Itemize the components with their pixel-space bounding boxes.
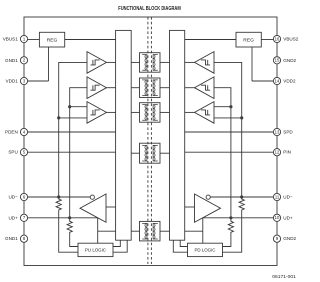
pin 4 circle xyxy=(20,128,27,135)
hysteresis symbol B3 xyxy=(201,110,210,115)
differential receiver A3 left xyxy=(87,102,107,124)
svg-text:GND2: GND2 xyxy=(283,58,296,63)
svg-text:SPD: SPD xyxy=(283,130,293,135)
isolation barrier dashed line right xyxy=(150,17,152,264)
wire REG right to VBUS2 xyxy=(261,39,273,41)
wire VBUS1 to REG xyxy=(28,39,40,41)
hysteresis symbol B2 xyxy=(201,85,210,90)
svg-text:VBUS1: VBUS1 xyxy=(3,37,19,42)
pin 5 circle xyxy=(20,149,27,156)
hysteresis symbol A3 xyxy=(91,110,100,115)
svg-text:UD+: UD+ xyxy=(8,215,18,220)
svg-text:PDEN: PDEN xyxy=(5,130,18,135)
pins xyxy=(20,35,280,242)
svg-text:15: 15 xyxy=(275,58,280,63)
wire receiver B3 output xyxy=(185,111,195,113)
encoder/decoder block right xyxy=(170,30,185,240)
pin 7 circle xyxy=(20,214,27,221)
svg-text:VDD2: VDD2 xyxy=(283,79,296,84)
hysteresis symbol A2 xyxy=(91,85,100,90)
wire REG output down xyxy=(48,47,50,81)
wire SPU to left block xyxy=(28,151,116,153)
wire REG right output down xyxy=(251,47,253,81)
wire tee to left block xyxy=(98,230,116,232)
svg-text:FUNCTIONAL BLOCK DIAGRAM: FUNCTIONAL BLOCK DIAGRAM xyxy=(118,6,181,12)
wire buffer A2 output xyxy=(107,87,116,89)
svg-text:10: 10 xyxy=(275,215,280,220)
node rail-A x B3 lower input right xyxy=(240,116,243,119)
svg-text:UD+: UD+ xyxy=(283,215,293,220)
wire rail UD+ receiver left (with pull-up resistor R2) xyxy=(67,88,87,247)
wire PDEN to left block xyxy=(28,131,116,133)
wire right driver junction down to PD logic xyxy=(202,218,204,243)
svg-text:PD LOGIC: PD LOGIC xyxy=(195,248,216,253)
wire buffer B2 output xyxy=(185,87,195,89)
schmitt buffer A2 left xyxy=(87,77,107,99)
node rail-A x A3 lower input left xyxy=(57,116,60,119)
transformer T4 xyxy=(131,143,169,163)
driver enable bubble right xyxy=(206,195,210,199)
pin 16 circle xyxy=(273,35,280,42)
pin 6 circle xyxy=(20,193,27,200)
wire right block to REG xyxy=(185,39,237,41)
wire buffer A1 output xyxy=(107,61,116,63)
svg-text:GND1: GND1 xyxy=(5,236,18,241)
wire rail UD- receiver left (with pull-up resistor R1) xyxy=(56,62,87,252)
svg-text:PU LOGIC: PU LOGIC xyxy=(85,248,106,253)
pin 3 circle xyxy=(20,77,27,84)
pin 10 circle xyxy=(273,214,280,221)
wire differential receiver input lower left xyxy=(59,117,87,119)
wire PU logic to block stub 1 xyxy=(113,240,120,246)
node rail-B x B3 upper input right xyxy=(229,105,232,108)
svg-text:PIN: PIN xyxy=(283,150,291,155)
svg-text:GND1: GND1 xyxy=(5,58,18,63)
node rail-B x A3 upper input left xyxy=(68,105,71,108)
output driver right xyxy=(195,194,221,222)
svg-text:VBUS2: VBUS2 xyxy=(283,37,299,42)
svg-text:UD−: UD− xyxy=(8,195,18,200)
svg-text:UD−: UD− xyxy=(283,195,293,200)
wire REG to left block xyxy=(65,39,116,41)
node rail-B x UD+ right xyxy=(229,216,232,219)
PU LOGIC block xyxy=(78,243,113,256)
pin 9 circle xyxy=(273,235,280,242)
hysteresis symbol A1 xyxy=(91,60,100,65)
transformer T2 xyxy=(131,78,169,98)
pin 1 circle xyxy=(20,35,27,42)
wire driver enable to left block xyxy=(106,206,116,208)
chip outline xyxy=(24,17,277,266)
svg-text:14: 14 xyxy=(275,78,280,83)
wire right block to SPD xyxy=(185,131,274,133)
schmitt buffer B2 right xyxy=(195,77,215,99)
pin 8 circle xyxy=(20,235,27,242)
isolation barrier dashed line left xyxy=(147,17,149,264)
pin 14 circle xyxy=(273,77,280,84)
svg-text:06171-001: 06171-001 xyxy=(272,274,296,279)
transformer T5 xyxy=(131,221,169,241)
hysteresis symbol B1 xyxy=(201,60,210,65)
PD LOGIC block xyxy=(188,243,223,256)
svg-text:SPU: SPU xyxy=(8,150,17,155)
svg-text:13: 13 xyxy=(275,129,280,134)
wire UD- pin6 to driver bubble xyxy=(28,196,91,198)
pin 2 circle xyxy=(20,57,27,64)
wire differential receiver input upper left xyxy=(70,106,87,108)
svg-text:GND2: GND2 xyxy=(283,236,296,241)
wire PD logic to block stub 1 xyxy=(180,240,187,246)
node rail-A x UD- right xyxy=(240,195,243,198)
svg-text:11: 11 xyxy=(275,194,280,199)
regulator REG right xyxy=(236,32,261,47)
wire right block to PIN xyxy=(185,151,274,153)
pin 12 circle xyxy=(273,149,280,156)
wire differential receiver input upper right xyxy=(214,106,231,108)
schmitt buffer A1 left xyxy=(87,52,107,74)
wire buffer B1 output xyxy=(185,61,195,63)
svg-text:REG: REG xyxy=(243,37,254,43)
pin 15 circle xyxy=(273,57,280,64)
wire PU logic to block stub 2 xyxy=(113,240,127,252)
wire driver bubble to UD- pin11 xyxy=(210,196,273,198)
wire VDD2 xyxy=(252,80,273,82)
pin 11 circle xyxy=(273,193,280,200)
junction dots xyxy=(57,105,243,219)
node rail-B x UD+ left xyxy=(68,216,71,219)
svg-text:16: 16 xyxy=(275,36,280,41)
differential receiver B3 right xyxy=(195,102,215,124)
regulator REG left xyxy=(39,32,64,47)
transformer T1 xyxy=(131,53,169,72)
encoder/decoder block left xyxy=(116,30,132,240)
wire UD+ pin7 to driver edge xyxy=(28,217,98,219)
transformer T3 xyxy=(131,103,169,123)
wire rail UD- receiver right (with resistor R1') xyxy=(214,62,244,252)
driver enable bubble left xyxy=(90,195,94,199)
wire right block to driver enable xyxy=(185,206,195,208)
pin 13 circle xyxy=(273,128,280,135)
wire PD logic to block stub 2 xyxy=(173,240,187,252)
wire tee to right block xyxy=(185,230,203,232)
wire receiver A3 output xyxy=(107,111,116,113)
svg-text:VDD1: VDD1 xyxy=(6,79,19,84)
output driver left xyxy=(80,194,106,222)
wire differential receiver input lower right xyxy=(214,117,242,119)
svg-text:12: 12 xyxy=(275,150,280,155)
wire rail UD+ receiver right (with resistor R2') xyxy=(214,88,234,247)
schmitt buffer B1 right xyxy=(195,52,215,74)
node rail-A x UD- left xyxy=(57,195,60,198)
wire driver junction down to PU logic xyxy=(97,218,99,243)
svg-text:REG: REG xyxy=(47,37,58,43)
wire driver edge to UD+ pin10 xyxy=(203,217,274,219)
wire VDD1 xyxy=(28,80,49,82)
